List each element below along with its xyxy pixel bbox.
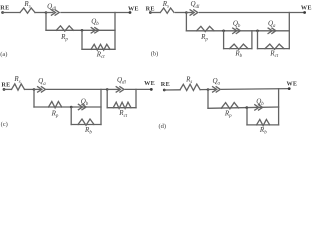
resistor Rs (a) xyxy=(20,8,35,13)
wire xyxy=(33,89,35,107)
node A (b) xyxy=(185,11,188,14)
wire xyxy=(278,89,280,125)
wire xyxy=(4,88,12,90)
CPE Qa (b) xyxy=(268,28,272,33)
node B (b) xyxy=(222,30,225,33)
wire xyxy=(71,124,101,126)
resistor Rb (b) xyxy=(230,44,249,49)
node A (a) xyxy=(45,11,48,14)
wire xyxy=(246,108,248,125)
terminal RE xyxy=(3,88,6,91)
terminal WE xyxy=(303,11,306,14)
svg-text:(c): (c) xyxy=(1,121,8,128)
resistor Rb (c) xyxy=(78,119,94,125)
wire xyxy=(61,12,130,14)
CPE Qb (a) xyxy=(91,28,95,33)
node B (c) xyxy=(106,88,109,91)
wire xyxy=(34,88,40,90)
terminal WE xyxy=(150,88,153,91)
wire xyxy=(25,88,35,90)
wire xyxy=(224,48,252,50)
wire xyxy=(207,90,209,109)
wire xyxy=(150,12,160,14)
svg-text:WE: WE xyxy=(144,80,155,87)
resistor Rct (b) xyxy=(265,44,284,49)
node A (d) xyxy=(207,88,210,91)
resistor Rp (a) xyxy=(56,26,73,31)
terminal RE xyxy=(149,11,152,14)
svg-text:WE: WE xyxy=(128,6,139,13)
wire xyxy=(258,48,290,50)
CPE Qb (d) xyxy=(255,105,259,110)
resistor Rb (d) xyxy=(257,119,270,125)
wire xyxy=(125,88,151,90)
wire xyxy=(176,12,187,14)
resistor Rp (d) xyxy=(221,103,238,109)
wire xyxy=(47,88,108,90)
wire xyxy=(200,89,208,91)
wire xyxy=(3,12,20,14)
wire xyxy=(185,13,187,31)
wire xyxy=(34,106,101,108)
node B (d) xyxy=(246,106,249,109)
svg-text:WE: WE xyxy=(301,5,312,12)
wire xyxy=(100,89,102,124)
wire xyxy=(251,31,253,49)
wire xyxy=(35,12,46,14)
node C (b) xyxy=(256,30,259,33)
node B (a) xyxy=(81,29,84,32)
wire xyxy=(81,30,83,49)
CPE Qdl (c) xyxy=(116,87,120,92)
wire xyxy=(208,88,215,90)
CPE Qdl (a) xyxy=(51,10,55,15)
wire xyxy=(186,30,289,32)
wire xyxy=(82,48,115,50)
CPE Qb (c) xyxy=(78,104,82,109)
terminal WE xyxy=(288,87,291,90)
resistor Rct (c) xyxy=(113,102,131,108)
CPE Qa (d) xyxy=(213,87,217,92)
resistor Rs (b) xyxy=(160,8,174,13)
resistor Rs (d) xyxy=(180,84,200,90)
wire xyxy=(45,13,47,31)
wire xyxy=(114,13,116,50)
wire xyxy=(208,107,279,108)
wire xyxy=(223,31,225,49)
svg-text:WE: WE xyxy=(286,81,297,88)
CPE Qa (c) xyxy=(38,87,42,92)
terminal WE xyxy=(129,11,132,14)
node A (c) xyxy=(33,88,36,91)
resistor Rp (b) xyxy=(197,26,215,31)
wire xyxy=(247,124,279,126)
svg-text:(b): (b) xyxy=(151,50,159,57)
wire xyxy=(135,89,137,107)
resistor Rp (c) xyxy=(49,102,62,108)
wire xyxy=(46,29,115,31)
wire xyxy=(257,31,259,49)
wire xyxy=(222,88,290,91)
wire xyxy=(46,12,53,14)
CPE Qb (b) xyxy=(233,28,237,33)
svg-text:RE: RE xyxy=(146,5,155,12)
node D (c) xyxy=(70,106,73,109)
wire xyxy=(164,89,180,91)
CPE Qdl (b) xyxy=(190,10,194,15)
wire xyxy=(288,13,290,49)
svg-text:RE: RE xyxy=(161,81,170,88)
wire xyxy=(107,88,118,90)
wire xyxy=(107,107,136,109)
svg-text:(a): (a) xyxy=(0,51,7,58)
resistor Rct (a) xyxy=(91,44,110,50)
svg-text:(d): (d) xyxy=(159,123,167,130)
wire xyxy=(106,89,108,107)
resistor Rs (c) xyxy=(12,84,25,90)
wire xyxy=(70,107,72,125)
svg-text:RE: RE xyxy=(0,5,9,12)
svg-text:RE: RE xyxy=(1,81,10,88)
terminal RE xyxy=(163,89,166,92)
wire xyxy=(200,12,305,14)
terminal RE xyxy=(1,11,4,14)
wire xyxy=(186,12,192,14)
